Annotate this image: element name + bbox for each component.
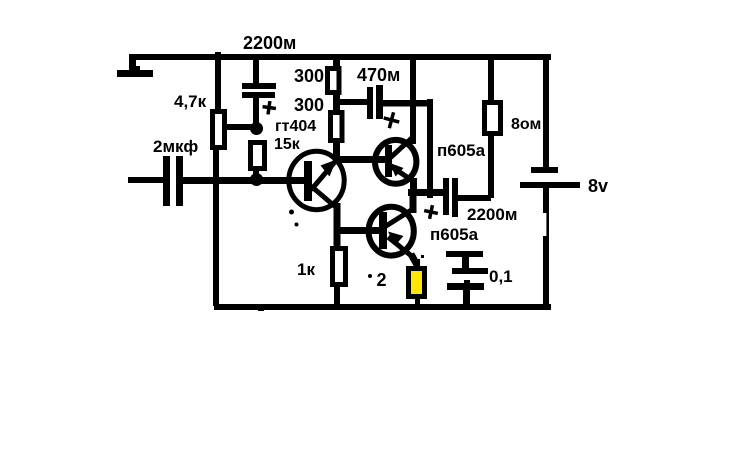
wire battery bottom lead: [543, 188, 549, 306]
label гт404: [275, 118, 316, 135]
resistor R5 yellow body: [409, 259, 425, 305]
svg-text:2200м: 2200м: [243, 33, 296, 53]
svg-text:2: 2: [377, 270, 387, 290]
transistor Q3 collector diagonal: [386, 209, 413, 226]
transistor Q2 base bar: [385, 145, 392, 177]
wire bottom lead of R1 down to ground rail: [213, 150, 219, 306]
resistor R3 15к: [251, 143, 265, 180]
wire Q1 collector to Q2 base: [335, 156, 386, 163]
svg-text:470м: 470м: [357, 65, 400, 85]
wire rail down to Q2 collector: [410, 57, 416, 144]
polarity plus of C4: [423, 204, 440, 221]
transistor Q1 collector diagonal with arrow: [311, 157, 339, 190]
capacitor C5 0,1 bottom electrode: [447, 280, 484, 305]
resistor R2 300 top: [328, 69, 340, 93]
resistor R4 8ом: [485, 103, 501, 134]
svg-text:0,1: 0,1: [489, 267, 513, 286]
label 8v: [588, 176, 608, 196]
svg-text:4,7к: 4,7к: [174, 92, 207, 111]
transistor Q2 п605а body circle: [375, 140, 416, 184]
wire R4 bottom lead: [488, 136, 494, 198]
wire C3 to bootstrap drop: [382, 100, 433, 107]
wire Q2 emitter stub: [410, 178, 417, 192]
wire input left segment: [128, 177, 164, 183]
wire R1 tap to base node: [223, 124, 257, 130]
wire bottom ground rail: [214, 304, 551, 310]
resistor R300 bottom: [331, 113, 343, 141]
wire top lead of R1: [215, 52, 221, 109]
svg-text:2мкф: 2мкф: [153, 137, 198, 156]
svg-text:1к: 1к: [297, 260, 315, 279]
transistor Q1 emitter diagonal: [311, 186, 338, 209]
label 2200м top: [243, 33, 296, 53]
label 300 bottom: [294, 95, 324, 115]
svg-text:п605а: п605а: [430, 225, 479, 244]
svg-text:300: 300: [294, 66, 324, 86]
wire battery top lead: [543, 57, 549, 168]
transistor Q1 гт404 body circle: [289, 151, 344, 209]
node junction J1: [250, 122, 263, 135]
speck near label 2: [368, 274, 372, 278]
wire Q3 emitter stub: [411, 254, 417, 265]
wire R300 bottom lead to Q1 collector: [333, 143, 340, 159]
svg-text:8ом: 8ом: [511, 116, 541, 133]
speck below Q1 circle: [289, 210, 294, 215]
capacitor C1 2200м top stub: [253, 59, 259, 85]
transistor Q2 collector diagonal: [390, 136, 414, 158]
speck above yellow resistor: [421, 255, 424, 258]
wire Q3 collector stub to output node: [410, 193, 417, 213]
polarity plus of C3: [382, 110, 402, 130]
resistor R1 4,7к: [213, 112, 225, 148]
svg-text:300: 300: [294, 95, 324, 115]
wire lead rail to R2: [333, 58, 340, 68]
transistor Q1 base bar: [304, 161, 312, 201]
capacitor C2 2мкф plates: [163, 156, 183, 206]
capacitor C5 0,1 top electrode: [446, 251, 488, 274]
wire rail down to R4: [488, 57, 494, 101]
label 8ом: [511, 116, 541, 133]
wire input to base of Q1: [183, 177, 305, 184]
wire emitter node to Q3 base: [337, 227, 380, 234]
label 2мкф: [153, 137, 198, 156]
node junction J2: [250, 173, 263, 186]
label 300 top: [294, 66, 324, 86]
label 15к: [274, 136, 301, 153]
svg-text:15к: 15к: [274, 136, 301, 153]
label 1к: [297, 260, 315, 279]
svg-text:п605а: п605а: [437, 141, 486, 160]
input terminal top-left: [117, 57, 153, 77]
label 470м: [357, 65, 400, 85]
transistor Q3 п605а body circle: [369, 207, 414, 256]
svg-text:8v: 8v: [588, 176, 608, 196]
wire output node to C4: [408, 189, 444, 196]
wire between 300 resistors: [333, 94, 340, 111]
transistor Q2 emitter diagonal with arrow: [389, 163, 413, 181]
wire Q1 emitter down: [334, 203, 341, 249]
label п605а top: [437, 141, 486, 160]
capacitor C3 470м plates: [367, 85, 383, 119]
battery BT1 plates: [520, 167, 580, 188]
wire C4 to speaker resistor: [458, 195, 491, 201]
wire bootstrap vertical down to output: [427, 99, 433, 198]
polarity plus of C1: [262, 100, 277, 115]
svg-text:гт404: гт404: [275, 118, 316, 135]
transistor Q3 emitter diagonal with arrow: [388, 232, 414, 259]
capacitor C4 2200м plates: [443, 178, 458, 217]
speck near Q1: [295, 223, 299, 227]
wire node to C3: [337, 99, 368, 105]
label 0,1: [489, 267, 513, 286]
speck below ground rail: [258, 308, 264, 311]
transistor Q3 base bar: [379, 212, 387, 249]
capacitor C1 2200м plates: [242, 83, 276, 130]
wire top supply rail: [129, 54, 551, 60]
label 2: [377, 270, 387, 290]
label 4,7к: [174, 92, 207, 111]
resistor R6 1к: [333, 249, 346, 306]
svg-text:2200м: 2200м: [467, 205, 517, 224]
label п605а bottom: [430, 225, 479, 244]
label 2200м bottom: [467, 205, 517, 224]
